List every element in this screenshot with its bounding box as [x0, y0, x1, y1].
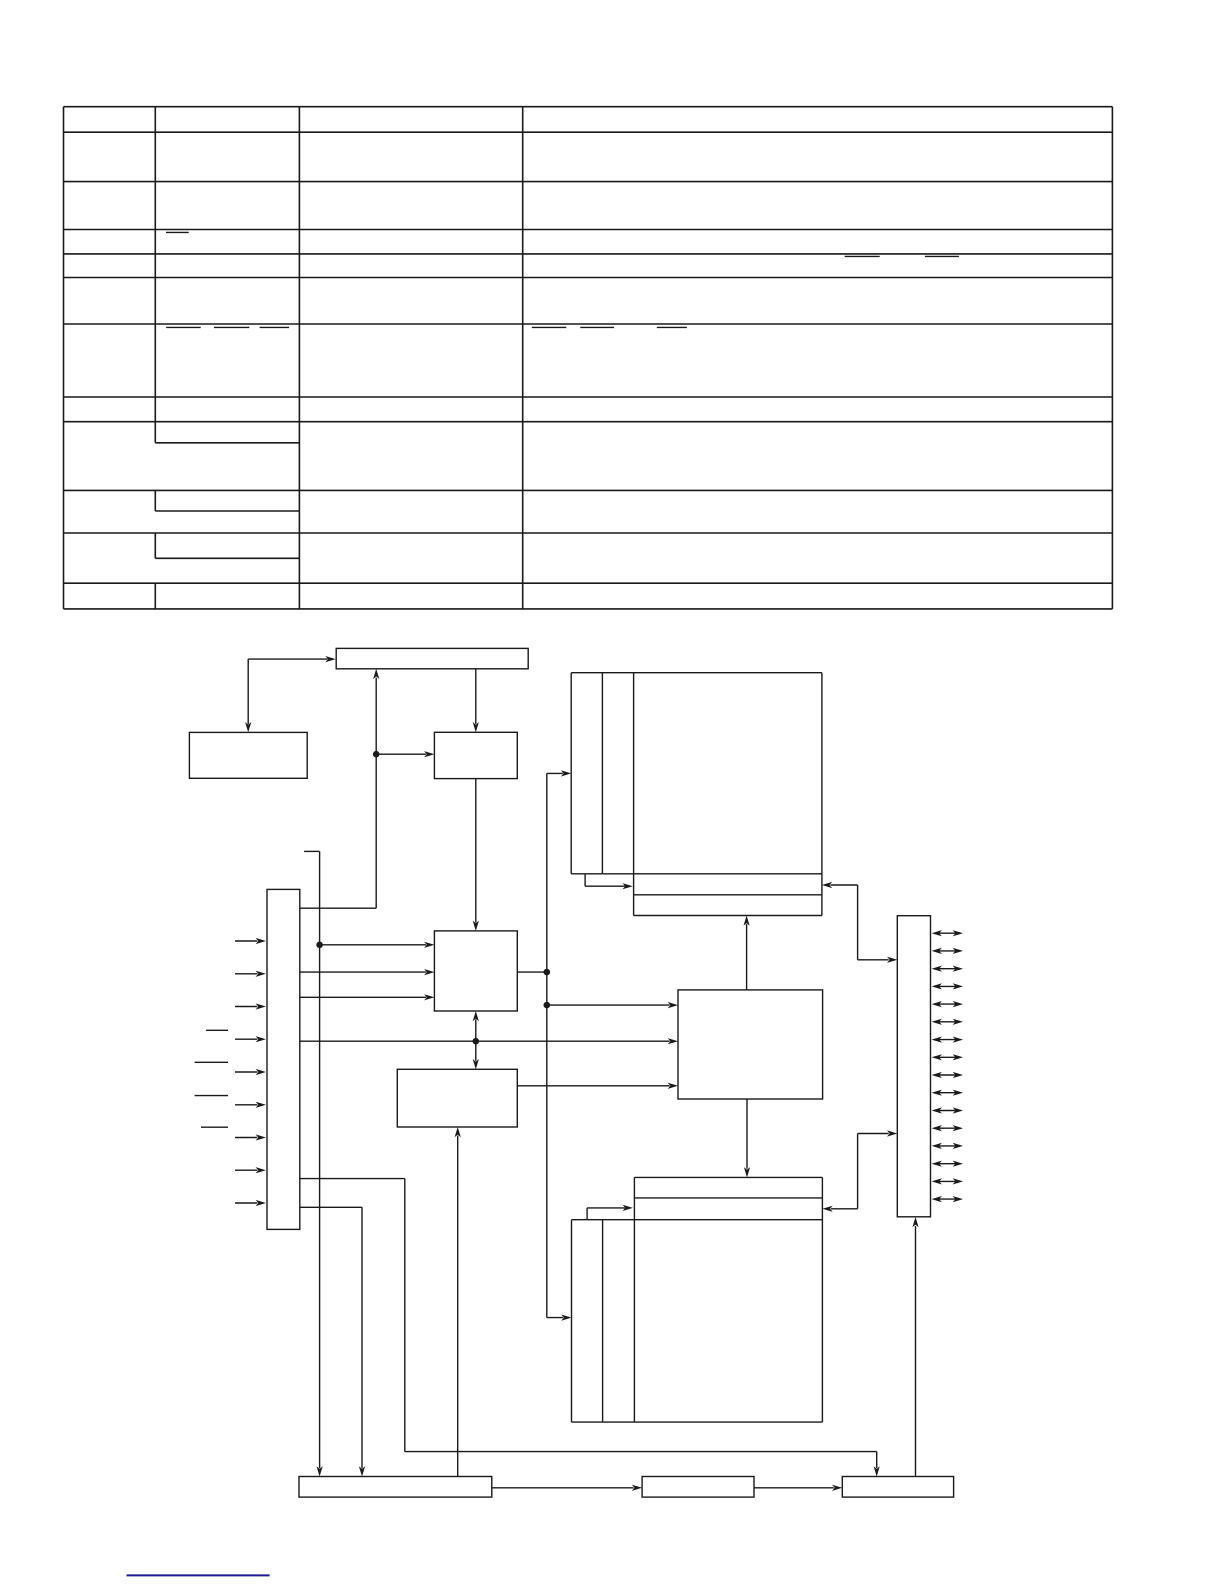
stack D layer line 2	[633, 673, 635, 916]
input arrow 2 into G	[235, 973, 257, 975]
junction dot on vertical 376	[373, 751, 380, 758]
arrowhead into F left (mid)	[668, 1002, 678, 1008]
wire E-H double arrow	[475, 1019, 477, 1061]
table row line 3	[64, 229, 1113, 231]
overbar row7 col2 a	[166, 326, 201, 328]
box E (ALU block)	[434, 931, 517, 1011]
box C (small block)	[434, 732, 517, 778]
wire 546 top corner to D	[547, 772, 563, 774]
arrowhead into F left (from H)	[668, 1083, 678, 1089]
wire vertical 319 down to K	[319, 851, 321, 1468]
overbar row7 col4 b	[580, 326, 614, 328]
wire L to M	[754, 1487, 834, 1489]
stack J step wire	[586, 1208, 588, 1220]
wire 546 bottom corner to J	[547, 1317, 563, 1319]
table column line 3 (full)	[522, 107, 524, 609]
pin-label overbar 4	[201, 1126, 228, 1128]
table row line 7	[64, 396, 1113, 398]
table outer border right	[1111, 107, 1113, 609]
wire G to F long horizontal	[300, 1040, 670, 1042]
arrowhead into D bottom row	[744, 916, 750, 926]
junction dot E-H wire	[473, 1038, 480, 1045]
junction dot 546 at E line	[544, 969, 551, 976]
table row line 8	[64, 421, 1113, 423]
stack J right edge	[821, 1177, 823, 1422]
wire G to E 2	[300, 971, 426, 973]
table row line 5	[64, 277, 1113, 279]
wire stub above G	[304, 850, 320, 852]
table sub-row line 2 (col2)	[155, 510, 299, 512]
overbar row5 col4 a	[845, 255, 880, 257]
arrowhead into B top	[245, 722, 251, 732]
arrowhead into E top	[473, 921, 479, 931]
wire A bottom to C top	[475, 669, 477, 724]
stack D step arrowhead	[623, 883, 633, 889]
stack D left edge	[570, 673, 572, 874]
table row line 10	[64, 532, 1113, 534]
arrowhead into C left	[424, 751, 434, 757]
wire vertical 546 (D to J)	[546, 773, 548, 1317]
wire F top to D bottom	[746, 924, 748, 990]
pin-label overbar 1	[206, 1029, 228, 1031]
junction dot 546 at F line	[544, 1002, 551, 1009]
wire G to K path	[300, 1206, 362, 1208]
arrowhead into H bottom	[455, 1127, 461, 1137]
box H (register block)	[397, 1069, 517, 1127]
port double arrow 8	[938, 1056, 957, 1058]
overbar row7 col2 c	[260, 326, 289, 328]
box I (right port driver)	[897, 916, 930, 1217]
port double arrow 13	[938, 1145, 957, 1147]
stack J bottom edge	[572, 1421, 823, 1423]
port double arrow 3	[938, 968, 957, 970]
stack J row line top	[634, 1176, 822, 1178]
hyperlink underline	[127, 1574, 270, 1576]
box K (bottom-left block)	[299, 1477, 492, 1498]
arrowhead into J top	[744, 1167, 750, 1177]
arrowhead into A left	[325, 656, 335, 662]
arrowhead into J left	[561, 1315, 571, 1321]
wire C bottom to E top	[475, 779, 477, 923]
wire A-bottom up-arrow vertical	[375, 678, 377, 909]
port double arrow 11	[938, 1110, 957, 1112]
wire dot319 to E	[320, 944, 426, 946]
input arrow 5 into G	[235, 1071, 257, 1073]
box B (top-left block)	[189, 732, 307, 778]
wire dot546 to F	[547, 1004, 670, 1006]
table row line 4	[64, 253, 1113, 255]
pin-label overbar 2	[195, 1061, 228, 1063]
arrowhead into E left 2	[424, 969, 434, 975]
table row line 2	[64, 181, 1113, 183]
arrowhead into D left	[561, 770, 571, 776]
port double arrow 1	[938, 932, 957, 934]
stack J layer line 1	[602, 1220, 604, 1422]
port double arrow 7	[938, 1039, 957, 1041]
wire G to E 3	[300, 996, 426, 998]
port double arrow 4	[938, 985, 957, 987]
input arrow 3 into G	[235, 1006, 257, 1008]
overbar row4 col2	[166, 231, 189, 233]
wire H right to F	[517, 1085, 669, 1087]
box A (top register)	[336, 648, 528, 668]
arrowhead into E left 1	[424, 942, 434, 948]
arrowhead into F left (from G)	[668, 1038, 678, 1044]
table outer border top	[64, 106, 1113, 108]
stack D right edge	[821, 673, 823, 916]
wire G to M path	[300, 1178, 405, 1180]
table outer border bottom	[64, 608, 1113, 610]
stack D step wire	[584, 874, 586, 886]
overbar row7 col4 a	[532, 326, 567, 328]
stack J step arrowhead	[623, 1205, 633, 1211]
arrowhead into J right	[822, 1206, 832, 1212]
wire K to L	[492, 1487, 634, 1489]
port double arrow 15	[938, 1180, 957, 1182]
stack J left edge	[571, 1220, 573, 1422]
arrowhead into K top (left)	[317, 1466, 323, 1476]
table outer border left	[63, 107, 65, 609]
table column line 1 seg a	[154, 107, 156, 443]
arrowhead into E bottom	[473, 1011, 479, 1021]
box F (control block)	[678, 990, 823, 1099]
stack D bottom edge	[571, 873, 822, 875]
arrowhead into C top	[473, 722, 479, 732]
wire M top to I bottom	[915, 1226, 917, 1477]
arrowhead into K top (right)	[359, 1466, 365, 1476]
arrowhead into I left (bottom)	[887, 1130, 897, 1136]
box M (bottom-right block)	[842, 1477, 953, 1498]
stack D row line a	[634, 894, 822, 896]
pin-label overbar 3	[195, 1095, 228, 1097]
stack D row line b	[634, 915, 822, 917]
table row line 9	[64, 489, 1113, 491]
stack J row line b	[572, 1219, 823, 1221]
port double arrow 9	[938, 1074, 957, 1076]
input arrow 8 into G	[235, 1169, 257, 1171]
arrowhead into I left (top)	[887, 957, 897, 963]
box L (bottom-middle block)	[642, 1477, 754, 1498]
arrowhead into M top	[874, 1466, 880, 1476]
overbar row5 col4 b	[925, 255, 959, 257]
input arrow 9 into G	[235, 1202, 257, 1204]
stack J layer line 2	[633, 1177, 635, 1422]
wire H bottom to K top	[457, 1136, 459, 1477]
table column line 1 seg d	[154, 583, 156, 609]
stack D top edge	[571, 672, 822, 674]
junction dot on vertical 319	[316, 942, 323, 949]
table column line 2 (full)	[298, 107, 300, 609]
table column line 1 seg c	[154, 533, 156, 558]
input arrow 4 into G	[235, 1038, 257, 1040]
overbar row7 col4 c	[657, 326, 687, 328]
box G (left port latch)	[267, 889, 300, 1229]
table sub-row line 1 (col2)	[155, 442, 299, 444]
table row line 6	[64, 323, 1113, 325]
port double arrow 2	[938, 950, 957, 952]
input arrow 1 into G	[235, 940, 257, 942]
stack D layer line 1	[601, 673, 603, 874]
table sub-row line 3 (col2)	[155, 557, 299, 559]
input arrow 6 into G	[235, 1104, 257, 1106]
port double arrow 6	[938, 1021, 957, 1023]
port double arrow 10	[938, 1092, 957, 1094]
wire dot376 to C	[376, 753, 426, 755]
wire E right to vertical 546	[517, 971, 547, 973]
input arrow 7 into G	[235, 1137, 257, 1139]
arrowhead into L left	[632, 1485, 642, 1491]
port double arrow 16	[938, 1198, 957, 1200]
wire G right to vertical 376	[300, 907, 376, 909]
arrowhead into I bottom	[912, 1217, 918, 1227]
arrowhead into A bottom	[373, 669, 379, 679]
arrowhead into H top	[473, 1059, 479, 1069]
table column line 1 seg b	[154, 490, 156, 511]
stack J row line a	[634, 1197, 822, 1199]
wire J-I link	[831, 1208, 858, 1210]
wire corner feeding A and B	[248, 658, 327, 660]
wire D-I link	[831, 884, 858, 886]
overbar row7 col2 b	[214, 326, 249, 328]
wire F bottom to J top	[746, 1099, 748, 1169]
arrowhead into E left 3	[424, 994, 434, 1000]
port double arrow 14	[938, 1163, 957, 1165]
table row line 11	[64, 582, 1113, 584]
arrowhead into D right	[822, 882, 832, 888]
table row line 1	[64, 131, 1113, 133]
port double arrow 12	[938, 1127, 957, 1129]
arrowhead into M left	[832, 1485, 842, 1491]
port double arrow 5	[938, 1003, 957, 1005]
